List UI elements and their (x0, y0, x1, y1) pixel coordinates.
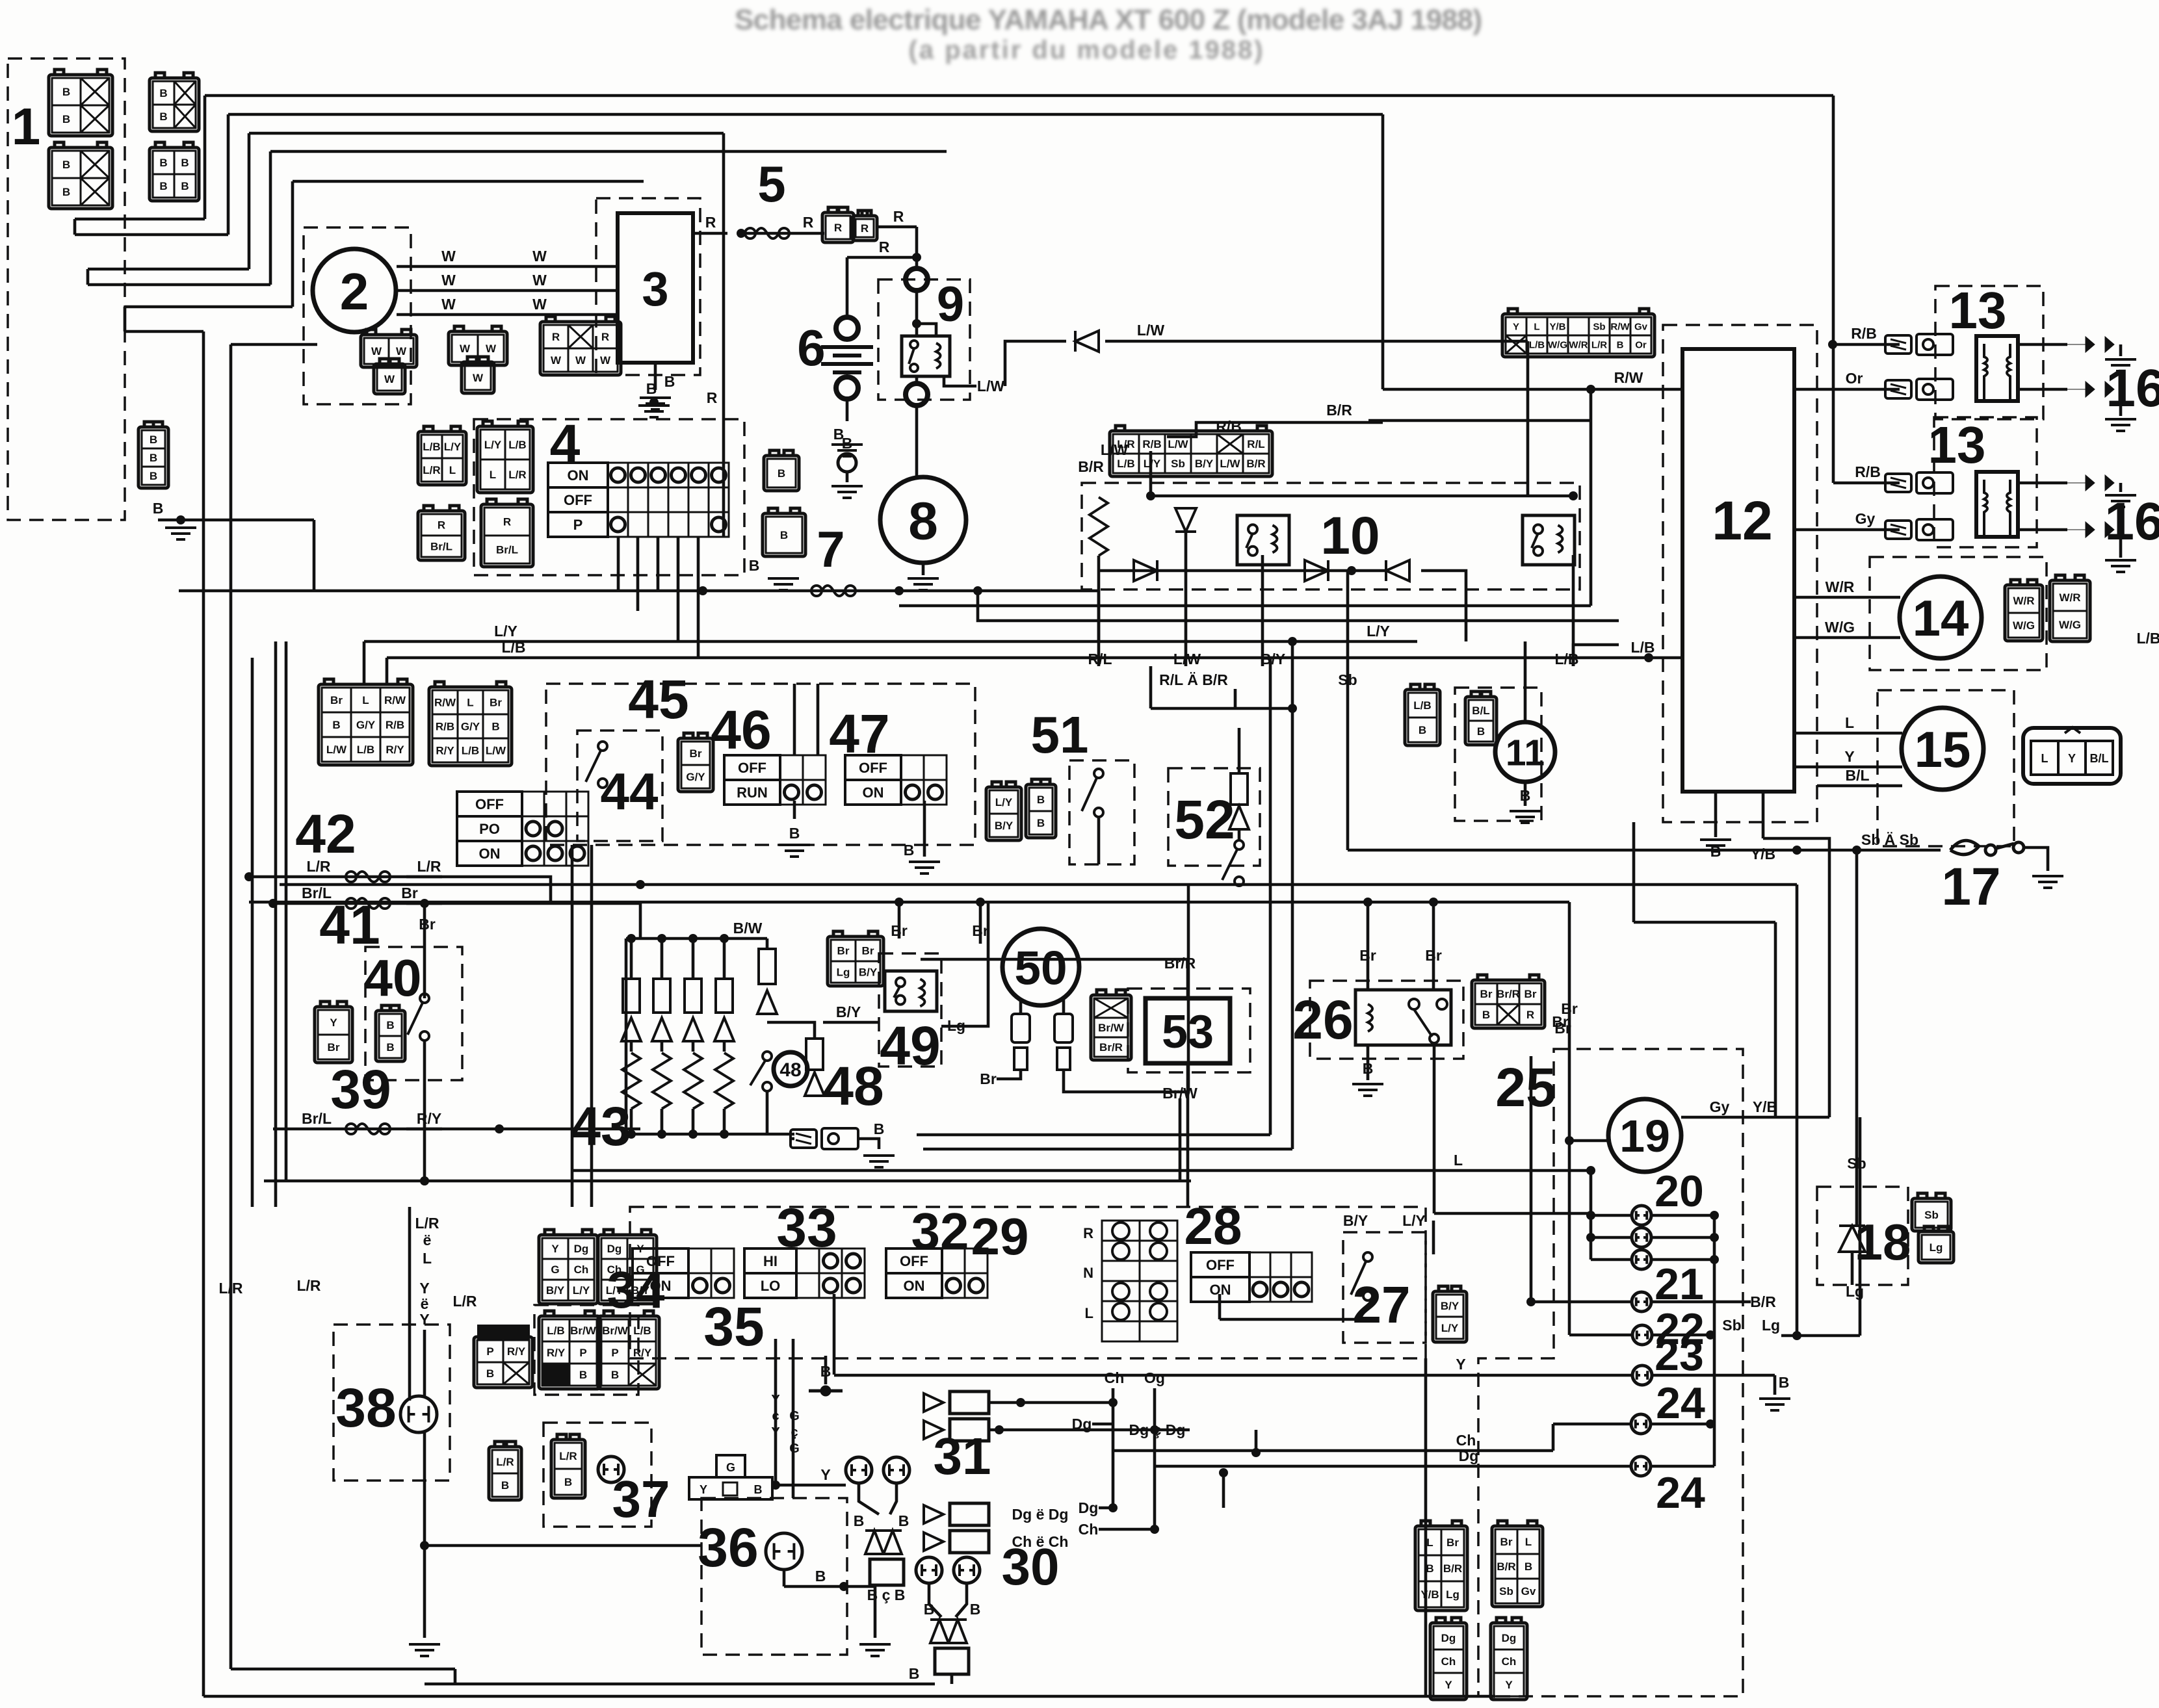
wire 33 down c (792, 1339, 795, 1498)
wire bus B2 rise (227, 114, 230, 235)
svg-text:L/R: L/R (296, 1277, 321, 1294)
junction r20b (1710, 1233, 1719, 1242)
svg-text:OFF: OFF (564, 492, 592, 508)
svg-text:Y: Y (1445, 1679, 1452, 1691)
svg-text:Sb: Sb (1171, 458, 1185, 470)
battery 6 terminal top (836, 317, 858, 339)
component 44 frame (577, 731, 662, 841)
wire R to starter circuit (878, 226, 917, 229)
svg-text:W: W (532, 248, 547, 265)
svg-text:Y: Y (1513, 321, 1519, 332)
diode 43 string 0 (622, 1018, 641, 1041)
svg-text:Y/B: Y/B (1751, 846, 1775, 862)
wire R feed ignition (722, 133, 726, 463)
rect 43 string 1 (653, 979, 670, 1013)
wire 43 string 0 b (630, 1041, 633, 1052)
svg-text:Y: Y (419, 1280, 429, 1297)
svg-text:R/B: R/B (386, 719, 404, 731)
svg-text:48: 48 (779, 1059, 801, 1081)
wire bus B2 drop (1381, 114, 1385, 389)
arrows 16a (2067, 337, 2114, 397)
terminal above ground (838, 454, 856, 472)
svg-text:46: 46 (711, 699, 771, 760)
wire B/L to 15 (1817, 784, 1902, 788)
svg-text:R/Y: R/Y (507, 1345, 526, 1358)
junction 43 bot 3 (720, 1130, 729, 1139)
component 13b frame (1934, 417, 2037, 547)
dimmer table 33 (744, 1249, 865, 1298)
svg-text:B: B (150, 470, 157, 482)
connector 4p LB/LY (418, 426, 466, 485)
wire R/L drop (1097, 556, 1101, 666)
wire bus B5 left v (124, 307, 127, 331)
wire bottom inner (231, 1668, 455, 1671)
connector 37 black (477, 1325, 530, 1340)
svg-text:B: B (386, 1041, 394, 1054)
ground 16b-1 (2105, 495, 2136, 507)
switch housing top frame (630, 1207, 1426, 1358)
component 18 frame (1817, 1187, 1908, 1285)
rect 48 b (806, 1039, 823, 1070)
wire 18 in (1855, 1187, 1859, 1227)
svg-text:B: B (501, 1479, 509, 1492)
junction 1817 (420, 1176, 429, 1185)
wire 53 down b (1186, 1171, 1190, 1207)
ground right of 4 (768, 578, 799, 590)
ground 47 (909, 862, 940, 873)
lamp 21 (1632, 1292, 1651, 1312)
wire 18 out (1851, 1252, 1854, 1285)
wire W2 (397, 289, 618, 292)
wire Br/L fuse line 39 (273, 1128, 442, 1131)
junction L2 b (976, 898, 985, 907)
connector 4p mate upper (150, 73, 199, 131)
svg-text:B/Y: B/Y (1195, 458, 1214, 470)
svg-text:ON: ON (863, 784, 884, 801)
wire horn down (1524, 782, 1527, 806)
wire LY drop a (363, 641, 366, 684)
svg-text:B/Y: B/Y (631, 1284, 650, 1297)
svg-text:W/R: W/R (1825, 578, 1855, 595)
svg-text:W: W (441, 248, 456, 265)
diode 48 b (805, 1072, 824, 1096)
svg-text:L/B: L/B (2136, 630, 2159, 647)
switch 48 (750, 1052, 772, 1091)
svg-text:W: W (600, 354, 611, 367)
svg-text:Lg: Lg (837, 966, 850, 979)
svg-text:W: W (532, 272, 547, 289)
svg-text:R/B: R/B (1851, 325, 1877, 342)
svg-text:G/Y: G/Y (686, 771, 705, 783)
svg-text:W: W (441, 272, 456, 289)
svg-text:52: 52 (1174, 789, 1235, 850)
component 12 frame (1663, 325, 1817, 822)
svg-text:21: 21 (1655, 1260, 1704, 1309)
wire ch riser (1255, 1430, 1258, 1453)
junction 24a right (1706, 1419, 1715, 1429)
svg-text:B: B (970, 1601, 981, 1618)
wire 8 gnd stub (922, 563, 925, 575)
wire L drop (1590, 1171, 1593, 1260)
wire left border 1 (202, 331, 205, 1696)
wire 53 bottom (1186, 1063, 1190, 1171)
wire 26 coil down (1367, 1045, 1370, 1080)
svg-text:Y: Y (820, 1466, 830, 1483)
connector Y Br (315, 1002, 352, 1063)
rect 43 string 3 (716, 979, 733, 1013)
component 2 frame (304, 227, 411, 404)
wire 52 b (1238, 829, 1241, 841)
svg-text:L: L (1454, 1152, 1463, 1169)
relay 49 body (885, 971, 937, 1011)
light switch table 45 (457, 792, 588, 866)
svg-text:W: W (551, 354, 562, 367)
lamp 31 b (883, 1457, 909, 1483)
svg-text:R/Y: R/Y (633, 1347, 652, 1359)
wire 46 in a (793, 684, 796, 755)
svg-text:B/R: B/R (1497, 1560, 1515, 1573)
wire RL BR v (1149, 666, 1153, 708)
rect 48 a (759, 949, 776, 984)
svg-text:R/B: R/B (1855, 463, 1881, 480)
svg-text:R: R (834, 222, 842, 234)
wire 23 gnd drop (1773, 1375, 1777, 1395)
svg-text:Dg: Dg (1072, 1416, 1092, 1432)
connector 34 d (598, 1311, 659, 1389)
svg-text:R/W: R/W (434, 697, 456, 709)
wire R/W into 12 (1383, 388, 1682, 391)
switch 44 (586, 742, 607, 788)
component 45 frame (546, 684, 975, 845)
junction L2 a (895, 898, 904, 907)
svg-text:Y/B: Y/B (1753, 1098, 1777, 1115)
wire 50 route (1064, 885, 1188, 1092)
svg-text:R/B: R/B (436, 721, 454, 733)
junction 38 (420, 1541, 429, 1550)
svg-text:44: 44 (601, 762, 659, 820)
svg-text:B: B (754, 1483, 763, 1496)
switch table 32 (886, 1249, 988, 1298)
switch 51 (1082, 769, 1103, 817)
connector pair 13b R/B (1885, 472, 1953, 493)
svg-text:W/G: W/G (1825, 619, 1855, 636)
svg-text:B: B (898, 1512, 909, 1529)
junction ch v (1108, 1398, 1118, 1407)
wire 43 string 1 a (661, 938, 664, 979)
connector W mate (462, 357, 494, 393)
connector 9grid L (319, 679, 413, 765)
svg-text:42: 42 (295, 803, 356, 864)
wire 46 in b (817, 684, 820, 755)
diode 52 (1229, 806, 1249, 829)
gear switch table 29 (1083, 1221, 1177, 1341)
svg-text:Gy: Gy (1710, 1098, 1730, 1115)
wire bus B3 rise (248, 133, 251, 269)
diode 43 string 2 (683, 1018, 703, 1041)
wire branch 7a rise RW (1590, 389, 1593, 606)
lamp 37 (598, 1456, 624, 1482)
wire 53 top (1186, 972, 1190, 998)
svg-text:L/R: L/R (218, 1280, 242, 1297)
wire BrW down (1179, 1098, 1182, 1181)
svg-text:W: W (532, 296, 547, 313)
wire R/B entry (1167, 422, 1383, 437)
wire nested v1954 (1269, 658, 1272, 1135)
wire ign 5 (697, 537, 700, 658)
wire 28 down (1218, 1294, 1222, 1319)
svg-text:ë: ë (423, 1232, 432, 1249)
connector Br Br Lg B/Y (828, 931, 883, 986)
junction 22 right (1706, 1330, 1715, 1339)
svg-text:25: 25 (1495, 1057, 1556, 1118)
svg-text:Br: Br (1480, 988, 1493, 1000)
wire 42 out (406, 877, 551, 902)
wire B out of 12 (1714, 792, 1718, 837)
fuse 7 main (811, 586, 856, 596)
svg-text:Br: Br (837, 945, 850, 957)
connector W below 2 (374, 359, 405, 394)
svg-text:ç: ç (772, 1409, 779, 1423)
wire 53 top bus (921, 959, 1188, 972)
wire Br/L fuse line (273, 902, 442, 905)
wire Y/B out of 12 (1762, 792, 1765, 838)
svg-text:Dg: Dg (1441, 1632, 1456, 1644)
wire W/G (1794, 636, 1900, 640)
arrow conn a (924, 1391, 989, 1414)
diode 48 a (757, 990, 777, 1014)
wire 17 to ground (2024, 848, 2048, 871)
svg-text:L: L (2041, 752, 2048, 765)
svg-text:B: B (491, 721, 499, 733)
wire 43 string 1 c (661, 1109, 664, 1134)
wire lamp20a right (1653, 1214, 1714, 1217)
lamp 22 (1632, 1325, 1652, 1345)
svg-text:Y/B: Y/B (1549, 321, 1565, 332)
svg-text:W/G: W/G (1548, 339, 1567, 350)
svg-text:Br/R: Br/R (1497, 988, 1520, 1000)
connector 4p in 1 upper (49, 70, 112, 136)
svg-text:L/B: L/B (547, 1325, 564, 1337)
resistor 43 string 1 (653, 1053, 671, 1109)
wire L/W drop to 10 (1526, 341, 1530, 496)
svg-text:OFF: OFF (646, 1253, 675, 1269)
lamp 20a (1632, 1206, 1651, 1225)
component 1 frame (8, 58, 125, 520)
wire diode row (1099, 569, 1388, 573)
wire 25 inner v (1530, 1056, 1533, 1302)
svg-text:Gy: Gy (1855, 510, 1876, 527)
connector grid BR Br L (1492, 1521, 1543, 1607)
wire ign 3 (657, 537, 660, 591)
diode 43 string 1 (652, 1018, 672, 1041)
wire v700 (454, 1669, 457, 1684)
svg-text:32: 32 (911, 1202, 969, 1260)
component 9 frame (878, 279, 970, 400)
ground below 11 (1510, 811, 1541, 823)
svg-text:31: 31 (934, 1427, 991, 1485)
connector G Y B (689, 1455, 772, 1499)
svg-text:R/W: R/W (1614, 369, 1643, 386)
wire 30 gnd (950, 1674, 954, 1684)
wire L/B drop (1572, 555, 1575, 666)
wire B stub 35 (824, 1356, 828, 1384)
svg-text:Y/B: Y/B (1420, 1588, 1439, 1601)
diode in 10 a (1175, 508, 1196, 532)
svg-text:G: G (789, 1409, 800, 1423)
svg-text:L/R: L/R (496, 1456, 514, 1468)
svg-text:4: 4 (550, 413, 581, 474)
svg-text:L/W: L/W (1168, 438, 1188, 450)
svg-text:7: 7 (817, 521, 844, 578)
svg-text:28: 28 (1184, 1197, 1242, 1255)
wire 9b (915, 376, 919, 383)
svg-text:B/R: B/R (1246, 458, 1265, 470)
svg-text:38: 38 (335, 1377, 396, 1438)
svg-text:R/Y: R/Y (547, 1347, 566, 1359)
connector 4p in 1 lower (49, 142, 112, 209)
svg-text:B: B (181, 157, 189, 169)
component 25 frame (1478, 1049, 1743, 1696)
component 50 (1002, 929, 1079, 1005)
junction bus B1 / R-B (1828, 340, 1837, 349)
svg-text:Br: Br (419, 916, 436, 933)
svg-text:Dg ë Dg: Dg ë Dg (1012, 1506, 1069, 1523)
wire 13b out2 (2018, 528, 2067, 532)
wire L to 15 (1794, 732, 1902, 735)
wire bus B3 (249, 132, 724, 135)
svg-text:P: P (573, 517, 583, 533)
svg-text:R/W: R/W (1610, 321, 1630, 332)
svg-text:B: B (159, 180, 167, 192)
svg-text:L/W: L/W (486, 745, 506, 757)
svg-text:B: B (664, 373, 675, 390)
svg-text:Br: Br (862, 945, 874, 957)
lamp 24b (1631, 1456, 1651, 1476)
connector R X R (540, 317, 621, 375)
svg-text:B: B (386, 1019, 394, 1031)
starter relay 9 terminal top (906, 268, 928, 291)
component 14 pickup (1900, 576, 1982, 658)
wire drop from connector (313, 520, 316, 591)
junction Sb a (1792, 846, 1801, 855)
svg-text:29: 29 (971, 1208, 1029, 1265)
junction arrow a (1016, 1398, 1025, 1407)
battery 6 plates (821, 347, 873, 372)
connector pair 43 out (791, 1128, 858, 1149)
wire top of 10 (1151, 495, 1573, 498)
svg-text:L/W: L/W (1173, 651, 1201, 667)
wire LB drop a (386, 658, 389, 684)
svg-text:B: B (749, 557, 760, 574)
wire 26 sw down (1433, 1045, 1436, 1213)
wire W/R (1794, 596, 1900, 599)
ground small (831, 486, 863, 498)
connector pair 13a R/B (1885, 334, 1953, 355)
svg-text:L/Y: L/Y (606, 1284, 623, 1297)
junction RL BR (1288, 704, 1297, 713)
wire 33 down b (774, 1339, 778, 1485)
connector R BrL a (418, 506, 465, 560)
wire ign 2 (636, 537, 640, 611)
wire 28 link (1220, 1318, 1368, 1321)
wire L/R fuse line (249, 875, 442, 879)
component 40 frame (365, 947, 462, 1080)
junction top 10 a (1146, 491, 1155, 500)
junction R (737, 229, 746, 238)
wire 36 down (783, 1570, 786, 1586)
wire 43 left (625, 938, 628, 1134)
svg-text:OFF: OFF (859, 760, 887, 776)
wire R battery link (847, 256, 917, 259)
svg-text:R/B: R/B (1216, 418, 1242, 435)
svg-text:Y: Y (1844, 748, 1854, 765)
svg-text:B: B (1779, 1374, 1790, 1391)
wire bottom border (203, 1695, 1495, 1698)
junction 21 left (1526, 1297, 1536, 1306)
wire Og v (1153, 1388, 1157, 1529)
svg-text:L: L (1085, 1305, 1093, 1321)
component 53 body (1145, 998, 1230, 1063)
zener 18 (1839, 1226, 1865, 1252)
svg-text:12: 12 (1712, 490, 1772, 551)
svg-text:R: R (893, 208, 904, 225)
svg-text:ON: ON (650, 1278, 672, 1294)
svg-text:B: B (611, 1369, 619, 1381)
svg-text:L/B: L/B (1630, 639, 1655, 656)
wire 46 down (793, 801, 796, 819)
wire Sb line (1348, 849, 1941, 852)
wire Sb drop from 10 (1346, 571, 1350, 850)
svg-text:L/B: L/B (1554, 651, 1578, 667)
svg-text:B: B (62, 86, 70, 98)
rect 43 string 0 (623, 979, 640, 1013)
wire 43 string 2 a (692, 938, 695, 979)
wire 16a gnd2 (2119, 389, 2123, 416)
ground below 3 (640, 398, 671, 409)
component 11 horn (1495, 722, 1555, 782)
svg-text:R: R (1083, 1225, 1093, 1241)
wire lamp20c left (1591, 1258, 1630, 1262)
junction 36 B (839, 1582, 848, 1591)
svg-text:Ch: Ch (1441, 1655, 1456, 1668)
wire nested h1768 (923, 1148, 1292, 1151)
svg-text:16: 16 (2106, 359, 2159, 418)
wire h1419 (1634, 921, 1775, 924)
wire 31a (859, 1483, 879, 1514)
svg-text:Y: Y (551, 1243, 559, 1255)
wire Br drop (423, 903, 426, 998)
connector B/L B (1465, 692, 1497, 745)
svg-text:B: B (486, 1367, 494, 1380)
ground 35 (809, 1387, 843, 1395)
wire 38 feed b (423, 1330, 426, 1397)
svg-text:B: B (159, 157, 167, 169)
wire L/W from 9 (944, 376, 976, 386)
svg-text:40: 40 (364, 949, 422, 1007)
connector grid Dg Ch Y b (1491, 1618, 1527, 1700)
wire Ch bus (1113, 1449, 1553, 1453)
wire 43 gnd (858, 1139, 879, 1149)
junction 26 a (1363, 898, 1372, 907)
svg-text:B/R: B/R (1326, 402, 1352, 419)
connector B B 51 (1026, 779, 1056, 838)
wire 16b gnd1 (2119, 483, 2123, 492)
lamp 20b (1632, 1228, 1651, 1247)
ground B 23 (1759, 1399, 1790, 1410)
connector 50 a (1012, 1014, 1030, 1070)
junction ch bus (1251, 1448, 1261, 1457)
wire Sb drop to 18 (1855, 850, 1859, 1187)
